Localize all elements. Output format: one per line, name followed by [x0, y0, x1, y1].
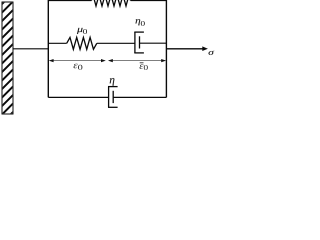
strain arrow epsilon-bar-0 (double headed): [108, 59, 166, 62]
label eta: [110, 78, 115, 86]
dashpot eta0: [134, 32, 144, 53]
right junction bar: [165, 0, 167, 97]
spring top (cut off at image top): [92, 0, 131, 6]
wire middle branch left lead: [48, 42, 66, 44]
wire middle branch between spring and dashpot: [97, 42, 135, 44]
label eta0: [135, 19, 144, 26]
wire top branch right: [131, 0, 167, 2]
fixed wall support: [0, 0, 16, 127]
label mu0: [77, 28, 87, 34]
left junction bar: [47, 0, 49, 97]
wire from wall to left junction bar: [13, 48, 48, 50]
spring mu0: [67, 37, 97, 49]
dashpot eta: [108, 87, 118, 108]
wire bottom branch left lead: [48, 96, 108, 98]
strain arrow epsilon0 (double headed): [49, 59, 106, 62]
stress arrow sigma: [166, 46, 208, 51]
label epsilon-bar-0: [140, 63, 148, 70]
wire top branch left: [48, 0, 91, 2]
label epsilon0: [74, 64, 83, 70]
wire bottom branch dashpot to right bar: [113, 96, 166, 98]
wire middle branch dashpot to right bar: [140, 42, 167, 44]
label sigma: [208, 51, 214, 55]
